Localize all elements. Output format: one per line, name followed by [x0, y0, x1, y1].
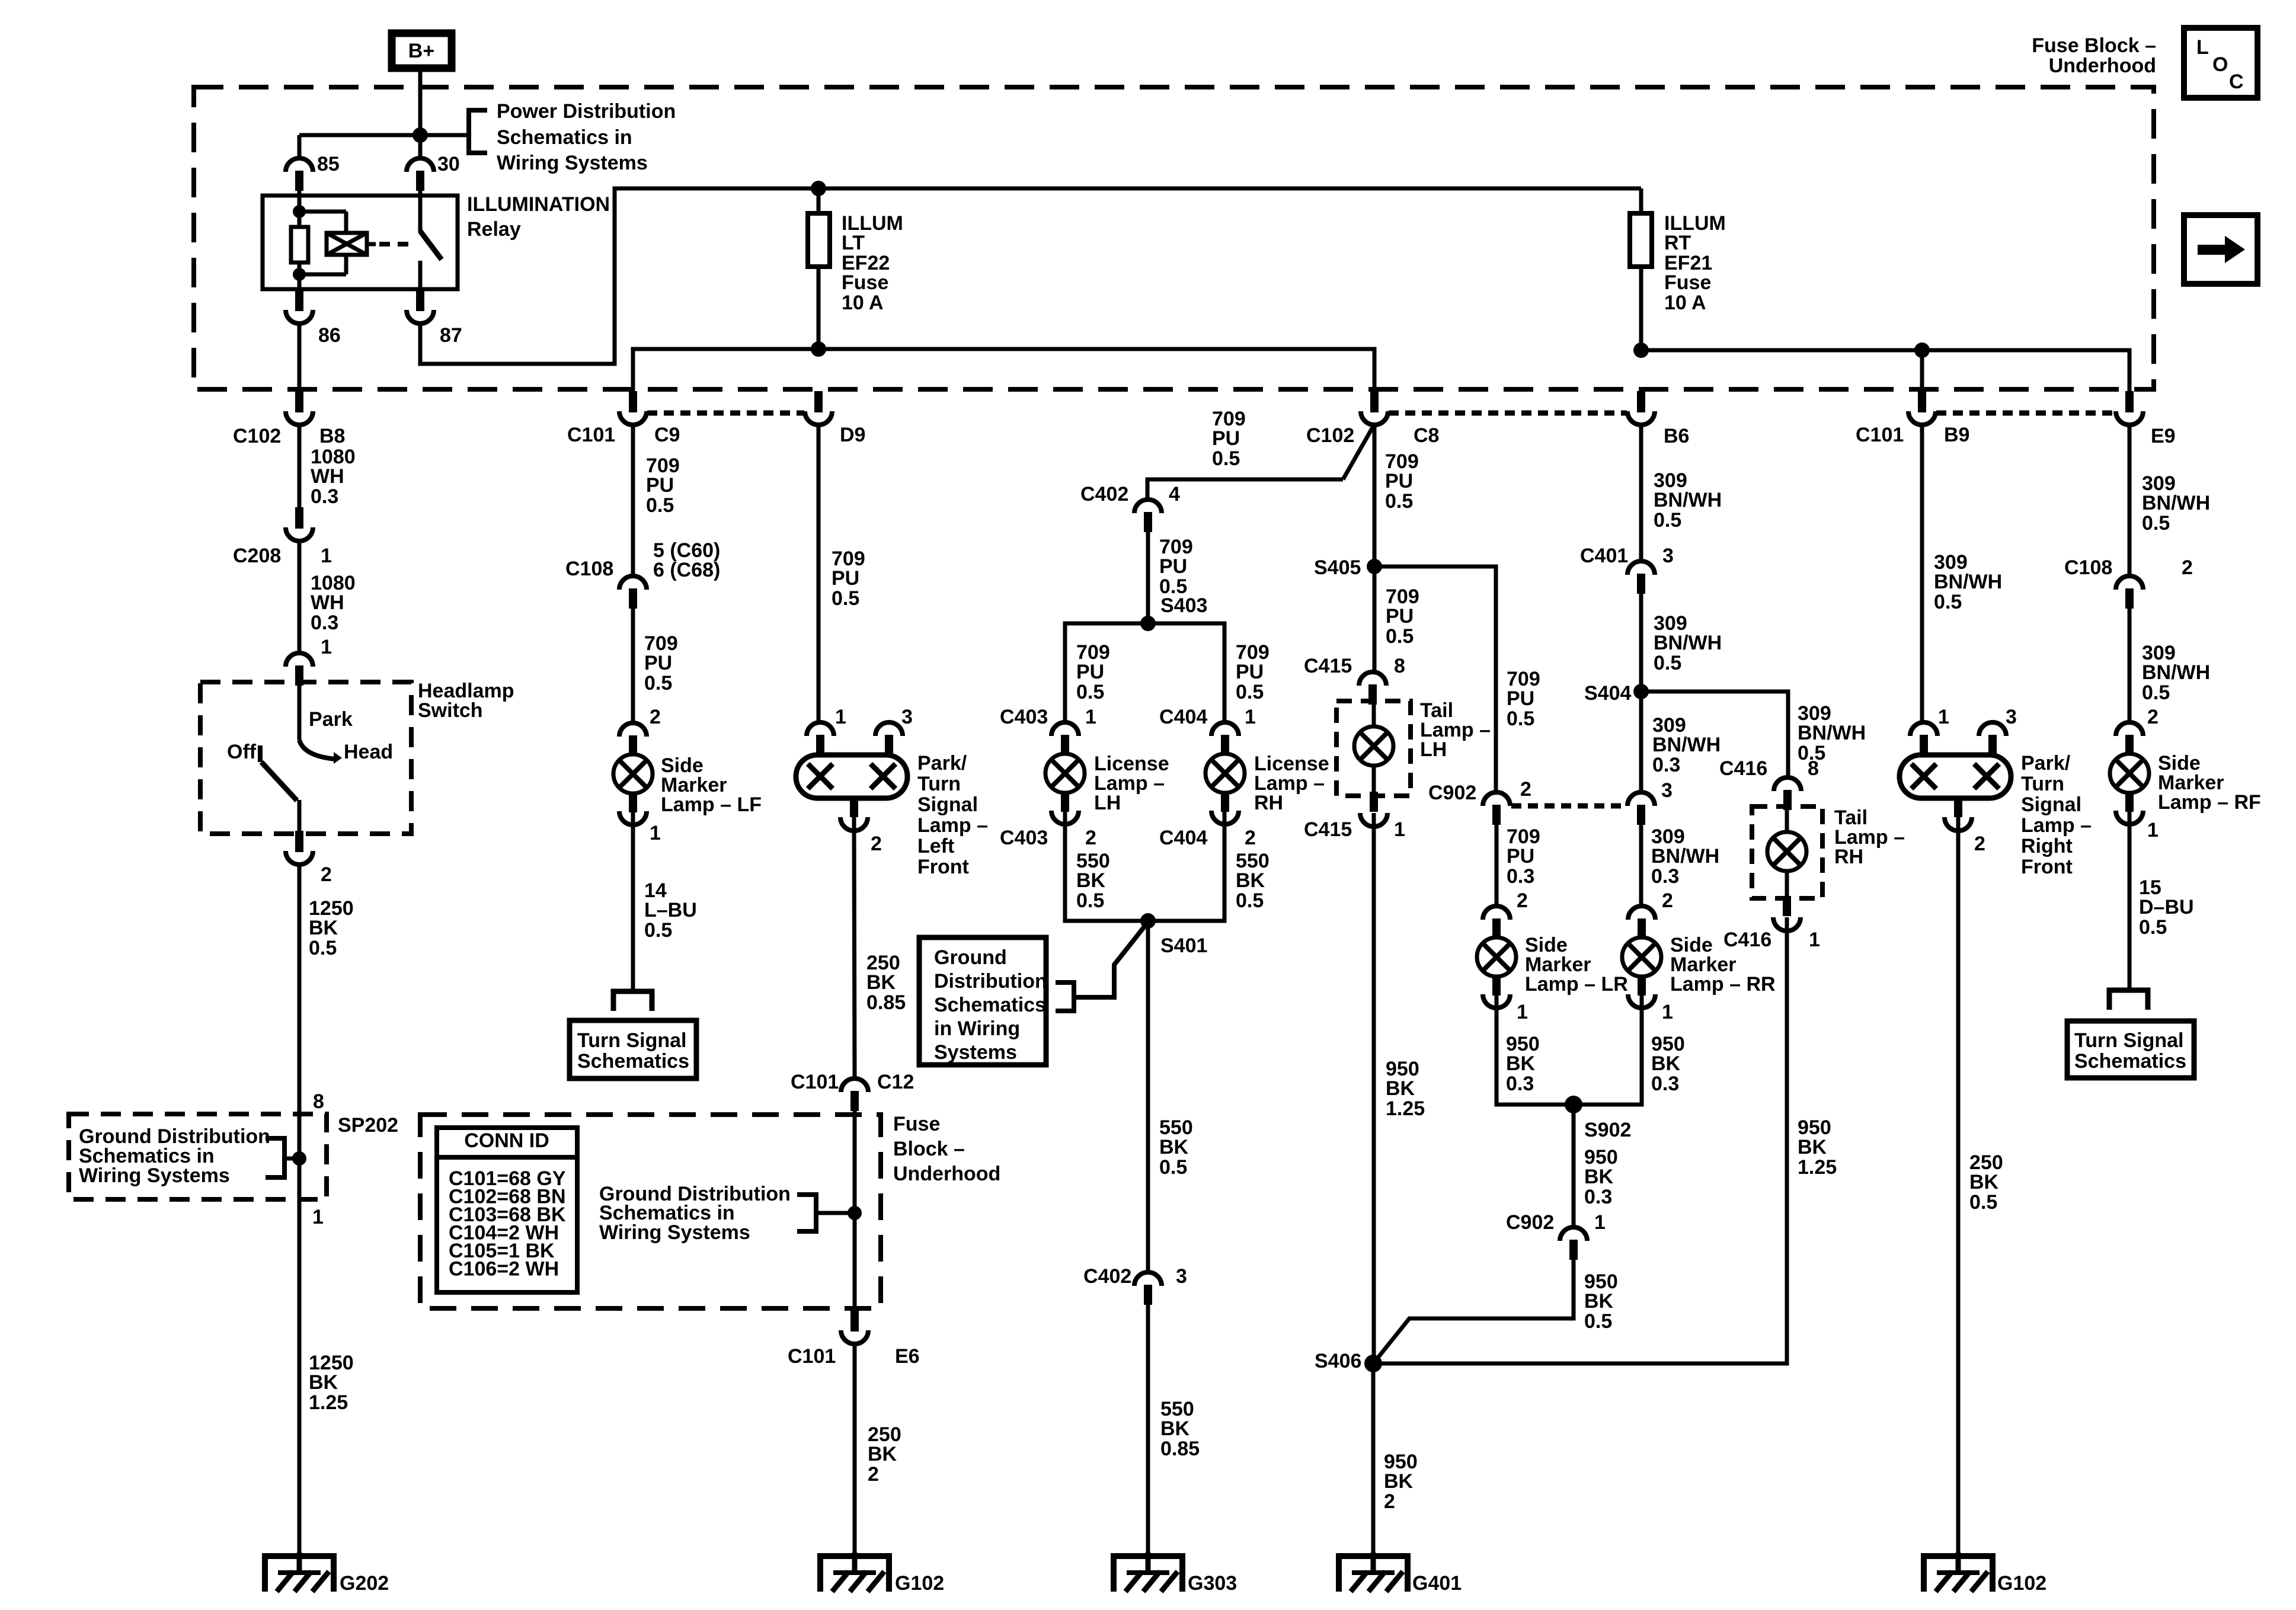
svg-text:2: 2 [1520, 778, 1531, 801]
wire C902-2 to side marker LR [1495, 825, 1499, 906]
arrow continuation box [2184, 215, 2257, 284]
label Tail Lamp - RH [1834, 806, 1905, 868]
wire C12 to E6 inside fuse block [853, 1111, 857, 1310]
svg-text:1.25: 1.25 [1386, 1097, 1425, 1120]
svg-text:1: 1 [1517, 1001, 1528, 1023]
svg-text:Off: Off [227, 741, 257, 763]
wire C108 to side marker LF [631, 609, 635, 723]
svg-text:C106=2 WH: C106=2 WH [449, 1258, 559, 1281]
connector C902 dashed pair link [1511, 804, 1625, 809]
svg-text:PU: PU [1507, 687, 1534, 710]
node S404 splice [1584, 682, 1649, 705]
node B+ junction [412, 127, 428, 143]
wire E9 circuit 309 BN/WH [2128, 425, 2132, 576]
connector C416 pin 1 label [1723, 929, 1820, 951]
svg-text:PU: PU [1212, 427, 1240, 450]
svg-text:0.5: 0.5 [646, 494, 674, 517]
svg-text:PU: PU [646, 474, 674, 497]
svg-text:D9: D9 [840, 424, 865, 446]
svg-text:BK: BK [1651, 1052, 1681, 1075]
svg-text:BN/WH: BN/WH [1654, 632, 1722, 654]
wire B9 circuit 309 BN/WH [1920, 425, 1924, 722]
svg-text:B8: B8 [319, 425, 345, 447]
node EF22 output junction [811, 341, 826, 357]
svg-text:C401: C401 [1580, 545, 1628, 567]
label Fuse Block - Underhood (top right) [2032, 34, 2156, 77]
wire C208 to headlamp switch [298, 541, 302, 654]
label License Lamp - LH [1094, 753, 1169, 814]
svg-text:0.3: 0.3 [311, 485, 338, 508]
wire C902-1 to S406 [1373, 1260, 1574, 1363]
svg-text:C8: C8 [1414, 424, 1439, 447]
headlamp switch pin 1 connector [286, 636, 332, 686]
svg-text:Underhood: Underhood [893, 1163, 1000, 1185]
svg-text:S405: S405 [1314, 556, 1361, 579]
relay pin 87 connector [407, 290, 462, 347]
wire side marker LF to turn signal schematics [631, 811, 635, 991]
fuse ILLUM LT EF22 10A [808, 188, 830, 349]
connector C416 pin 8 [1719, 757, 1819, 810]
wire C9 circuit 709 PU [631, 425, 635, 576]
label 309 BN/WH 0.3 below [1651, 825, 1719, 888]
svg-text:87: 87 [440, 324, 462, 347]
label 709 PU 0.5 branch [1212, 408, 1246, 470]
svg-text:C208: C208 [233, 545, 281, 567]
svg-text:Turn Signal: Turn Signal [577, 1029, 686, 1052]
fuse block underhood dashed box [194, 87, 2154, 389]
label Side Marker Lamp - RR [1670, 934, 1776, 996]
svg-text:1: 1 [650, 822, 661, 844]
wire park turn LF ground 250 BK [854, 817, 855, 1078]
svg-text:8: 8 [1808, 757, 1819, 780]
label 309 BN/WH 0.5 below C108 [2142, 642, 2210, 704]
wire license lamp top rail [1065, 623, 1224, 722]
label Side Marker Lamp - RF [2158, 752, 2261, 814]
svg-text:Schematics: Schematics [934, 994, 1046, 1016]
svg-text:1.25: 1.25 [309, 1391, 348, 1414]
svg-text:Switch: Switch [418, 699, 483, 722]
svg-text:1: 1 [1938, 706, 1949, 728]
svg-text:3: 3 [1661, 779, 1673, 802]
label 709 PU 0.5 second [644, 632, 678, 694]
svg-text:BK: BK [1584, 1166, 1614, 1188]
connector C108 pin 2 [2064, 556, 2193, 609]
svg-text:G102: G102 [1997, 1572, 2046, 1595]
label 950 BK 0.3 LR [1506, 1033, 1540, 1095]
svg-text:BK: BK [1798, 1136, 1827, 1158]
svg-text:2: 2 [2182, 556, 2193, 579]
svg-text:85: 85 [317, 153, 340, 175]
svg-text:RT: RT [1664, 232, 1691, 254]
svg-text:2: 2 [871, 833, 882, 855]
svg-text:BK: BK [1386, 1077, 1415, 1100]
label 550 BK 0.5 below S401 [1159, 1116, 1193, 1179]
label 250 BK 0.5 right [1969, 1151, 2003, 1214]
svg-text:Signal: Signal [917, 793, 978, 816]
wire S902 to C902 pin 1 [1572, 1105, 1576, 1227]
label 709 PU 0.5 C8 [1385, 450, 1419, 513]
relay actuator dashed link [379, 242, 415, 247]
svg-text:1: 1 [1394, 818, 1405, 841]
svg-text:0.5: 0.5 [2142, 512, 2170, 534]
wire LR to S902 [1496, 994, 1574, 1105]
svg-text:0.3: 0.3 [1652, 754, 1680, 776]
wire pin 85/30 stubs into relay [298, 187, 302, 197]
svg-text:C902: C902 [1506, 1211, 1554, 1234]
svg-text:1: 1 [321, 545, 332, 567]
svg-text:30: 30 [437, 153, 460, 175]
wire C8 branch to C402 [1147, 424, 1374, 500]
svg-text:0.5: 0.5 [1654, 652, 1681, 674]
svg-text:2: 2 [2147, 706, 2159, 728]
svg-text:Power Distribution: Power Distribution [497, 100, 676, 123]
wire junction to relay pins 85 and 30 [299, 133, 420, 137]
svg-text:B6: B6 [1664, 425, 1689, 447]
label 550 BK 0.5 RH [1236, 850, 1269, 912]
svg-text:0.3: 0.3 [311, 612, 338, 634]
svg-text:PU: PU [1236, 661, 1264, 683]
label 709 PU 0.3 [1507, 825, 1540, 888]
label Headlamp Switch [418, 680, 514, 722]
connector C404 pin 1 label [1159, 706, 1256, 728]
svg-text:C402: C402 [1080, 483, 1128, 505]
svg-text:BK: BK [866, 971, 896, 994]
connector C101 pin D9 [805, 391, 865, 446]
svg-text:Fuse: Fuse [1664, 271, 1711, 294]
headlamp switch pin 2 connector [286, 831, 332, 886]
lamp Park/Turn Signal Lamp - Right Front [1900, 706, 2017, 855]
label 950 BK 0.3 below S902 [1584, 1146, 1618, 1208]
label Tail Lamp - LH [1420, 699, 1491, 761]
ground G102 [820, 1553, 944, 1595]
svg-text:S404: S404 [1584, 682, 1631, 705]
svg-text:C416: C416 [1719, 757, 1767, 780]
svg-text:L: L [2196, 36, 2209, 59]
label Ground Distribution Schematics in Wiring Systems left [79, 1125, 270, 1187]
lamp Side Marker Lamp - LF [613, 723, 653, 825]
connector C415 pin 8 [1304, 655, 1405, 705]
svg-text:BK: BK [1584, 1290, 1614, 1313]
svg-text:WH: WH [311, 591, 344, 614]
svg-text:2: 2 [1517, 889, 1528, 912]
svg-text:Fuse Block –: Fuse Block – [2032, 34, 2156, 57]
svg-text:1: 1 [1594, 1211, 1606, 1234]
node S406 splice [1315, 1350, 1382, 1372]
svg-text:BK: BK [1160, 1417, 1190, 1440]
connector C902 pin 3 [1627, 779, 1673, 825]
fuse ILLUM RT EF21 10A [1630, 188, 1652, 350]
label Park/Turn Signal Lamp - Left Front [917, 752, 988, 878]
wire left distribution rail [633, 349, 1374, 392]
svg-text:Distribution: Distribution [934, 970, 1047, 993]
wire C401 to S404 [1639, 594, 1643, 692]
svg-text:PU: PU [832, 567, 859, 590]
turn signal schematics box right [2067, 1021, 2194, 1078]
connector C403 pin 1 label [1000, 706, 1096, 728]
svg-text:Front: Front [917, 856, 969, 878]
battery feed B+ terminal [392, 33, 452, 68]
svg-text:Park/: Park/ [2021, 752, 2071, 774]
svg-text:3: 3 [1662, 545, 1674, 567]
svg-text:0.5: 0.5 [1236, 681, 1264, 703]
svg-text:G202: G202 [340, 1572, 389, 1595]
node fuse rail junction at EF22 [811, 181, 826, 196]
svg-text:C12: C12 [877, 1071, 914, 1093]
wire pin 86 to connector B8 [298, 323, 302, 392]
svg-text:Lamp – LR: Lamp – LR [1525, 973, 1628, 996]
svg-text:B+: B+ [408, 40, 434, 62]
svg-text:BN/WH: BN/WH [1934, 571, 2002, 593]
svg-text:Turn: Turn [2021, 773, 2064, 795]
bracket to power distribution note [420, 110, 487, 153]
bracket into turn signal schematics right [2109, 990, 2148, 1010]
svg-text:G303: G303 [1188, 1572, 1237, 1595]
svg-text:BK: BK [1969, 1171, 1999, 1193]
ground distribution dashed box SP202 [69, 1114, 327, 1199]
lamp Park/Turn Signal Lamp - Left Front [796, 706, 913, 855]
label 709 PU 0.5 license LH [1076, 641, 1110, 703]
svg-text:Head: Head [344, 741, 393, 763]
svg-text:0.5: 0.5 [1507, 708, 1534, 730]
ground G102 right [1924, 1553, 2046, 1595]
wire S401 down to C402 pin 3 [1146, 921, 1150, 1272]
svg-text:Lamp – RR: Lamp – RR [1670, 973, 1776, 996]
svg-text:Wiring Systems: Wiring Systems [79, 1164, 230, 1187]
svg-text:Schematics in: Schematics in [497, 126, 632, 149]
headlamp switch dashed box [200, 682, 411, 834]
bracket S401 to ground distribution note [1056, 922, 1148, 1011]
svg-text:2: 2 [868, 1463, 879, 1486]
svg-text:BN/WH: BN/WH [1651, 845, 1719, 868]
svg-text:Wiring Systems: Wiring Systems [599, 1221, 750, 1244]
svg-text:Front: Front [2021, 856, 2073, 878]
connector C102 pin C8 [1306, 391, 1439, 447]
label 1250 BK 1.25 [309, 1352, 354, 1414]
svg-text:C404: C404 [1159, 827, 1207, 849]
svg-text:0.3: 0.3 [1507, 865, 1534, 888]
connector C101 pin E9 [2116, 391, 2176, 447]
svg-text:Park/: Park/ [917, 752, 967, 774]
svg-text:BN/WH: BN/WH [2142, 492, 2210, 514]
wire S404 branch to tail lamp RH [1641, 692, 1788, 777]
node splice on E6 wire [848, 1206, 862, 1220]
lamp Side Marker Lamp - RF [2110, 722, 2149, 824]
svg-text:Ground: Ground [934, 946, 1007, 969]
svg-text:C101: C101 [1856, 424, 1904, 446]
svg-text:C415: C415 [1304, 655, 1352, 677]
label 709 PU 0.5 D9 [832, 548, 865, 610]
svg-text:Turn: Turn [917, 773, 961, 795]
wire license lamp bottom rail [1065, 811, 1224, 921]
connector C402 pin 4 [1080, 483, 1180, 532]
svg-text:Systems: Systems [934, 1041, 1017, 1064]
svg-text:C101: C101 [791, 1071, 839, 1093]
label 1250 BK 0.5 [309, 897, 354, 959]
svg-text:2: 2 [650, 706, 661, 728]
svg-text:1: 1 [321, 636, 332, 658]
wire S405 down to tail lamp [1373, 566, 1377, 672]
svg-text:PU: PU [1385, 470, 1413, 492]
ground G401 [1339, 1553, 1462, 1595]
relay switch contacts [420, 196, 442, 289]
label 250 BK 2 [868, 1423, 901, 1486]
connector C101 pin B9 [1856, 391, 1969, 446]
svg-text:C415: C415 [1304, 818, 1352, 841]
wire switch output 1250 BK [298, 865, 302, 1556]
svg-text:2: 2 [1085, 827, 1096, 849]
svg-text:BK: BK [1236, 869, 1265, 892]
svg-text:C101: C101 [567, 424, 615, 446]
svg-text:Right: Right [2021, 835, 2073, 857]
svg-text:Wiring Systems: Wiring Systems [497, 152, 648, 174]
svg-text:E9: E9 [2151, 425, 2176, 447]
conn id table [437, 1128, 577, 1292]
connector C401 pin 3 [1580, 545, 1674, 594]
turn signal schematics box left [570, 1020, 696, 1078]
connector C902 pin 2 [1428, 778, 1531, 825]
svg-text:4: 4 [1169, 483, 1180, 505]
connector C101 pin C9 [567, 391, 680, 446]
svg-text:BN/WH: BN/WH [1652, 734, 1721, 756]
op relay ILLUMINATION Relay box [263, 196, 458, 289]
svg-text:C9: C9 [654, 424, 680, 446]
label Side Marker Lamp - LF [661, 754, 762, 816]
svg-text:6 (C68): 6 (C68) [653, 559, 720, 581]
connector C208 pin 1 [233, 507, 332, 567]
svg-text:0.5: 0.5 [1236, 889, 1264, 912]
svg-text:C102: C102 [1306, 424, 1354, 447]
label 950 BK 1.25 [1386, 1058, 1425, 1120]
svg-text:BK: BK [309, 1371, 338, 1394]
svg-text:0.3: 0.3 [1651, 865, 1679, 888]
svg-text:C404: C404 [1159, 706, 1207, 728]
svg-text:0.5: 0.5 [1159, 1156, 1187, 1179]
label Park/Turn Signal Lamp - Right Front [2021, 752, 2092, 878]
lamp License Lamp - LH [1045, 722, 1085, 824]
svg-text:8: 8 [1394, 655, 1405, 677]
label 709 PU 0.5 C9 [646, 454, 680, 517]
label 950 BK 0.5 [1584, 1270, 1618, 1333]
svg-text:C108: C108 [565, 558, 613, 580]
wire C108 to side marker RF [2128, 609, 2132, 722]
svg-text:0.5: 0.5 [2139, 916, 2167, 939]
svg-text:BK: BK [1506, 1052, 1536, 1075]
node S403 splice [1140, 594, 1207, 631]
svg-text:B9: B9 [1944, 424, 1969, 446]
svg-text:Schematics: Schematics [577, 1050, 689, 1073]
svg-text:S406: S406 [1315, 1350, 1361, 1372]
svg-text:BN/WH: BN/WH [1654, 489, 1722, 511]
connector C404 pin 2 label [1159, 827, 1256, 849]
svg-text:PU: PU [1076, 661, 1104, 683]
svg-text:L–BU: L–BU [644, 899, 697, 921]
svg-text:CONN ID: CONN ID [464, 1129, 549, 1152]
connector C101 pin C12 [791, 1071, 914, 1111]
lamp Tail Lamp - LH [1336, 701, 1411, 827]
svg-text:0.5: 0.5 [1212, 447, 1240, 470]
svg-text:PU: PU [1386, 605, 1414, 628]
label 709 PU 0.5 below C402 [1159, 536, 1193, 598]
svg-text:C416: C416 [1723, 929, 1771, 951]
svg-text:0.5: 0.5 [1076, 889, 1104, 912]
lamp Side Marker Lamp - RR [1622, 906, 1661, 1008]
svg-text:E6: E6 [895, 1345, 920, 1368]
svg-text:Relay: Relay [467, 218, 521, 241]
LOC reference box [2184, 28, 2257, 98]
svg-text:0.5: 0.5 [1654, 509, 1681, 532]
svg-text:0.5: 0.5 [644, 919, 672, 942]
label 309 BN/WH 0.5 branch [1798, 702, 1866, 764]
svg-text:0.3: 0.3 [1651, 1073, 1679, 1095]
bracket into turn signal schematics left [613, 991, 652, 1011]
label 709 PU 0.5 below S405 [1386, 585, 1419, 648]
bracket splice SP202 [266, 1138, 299, 1177]
svg-text:O: O [2212, 53, 2228, 76]
svg-text:0.5: 0.5 [1386, 625, 1414, 648]
wire S404 down to side marker RR [1639, 692, 1643, 792]
relay pin 30 connector [407, 135, 460, 191]
svg-text:Turn Signal: Turn Signal [2074, 1029, 2183, 1052]
svg-text:0.3: 0.3 [1584, 1186, 1612, 1208]
wire tail RH down to S406 rail [1373, 917, 1787, 1363]
label 950 BK 2 [1384, 1451, 1418, 1513]
connector C101 pin E6 [788, 1310, 920, 1368]
svg-text:BK: BK [1076, 869, 1106, 892]
svg-text:2: 2 [1662, 889, 1673, 912]
svg-text:Lamp – RF: Lamp – RF [2158, 791, 2261, 814]
svg-text:C102: C102 [233, 425, 281, 447]
label 950 BK 1.25 tail RH [1798, 1116, 1837, 1179]
wire D9 circuit 709 PU [817, 425, 821, 722]
label 1080 WH 0.3 [311, 446, 356, 508]
node S401 splice [1140, 913, 1207, 957]
svg-text:S902: S902 [1584, 1119, 1631, 1141]
svg-text:0.5: 0.5 [1076, 681, 1104, 703]
svg-text:BN/WH: BN/WH [2142, 661, 2210, 684]
svg-text:C403: C403 [1000, 706, 1048, 728]
svg-text:C403: C403 [1000, 827, 1048, 849]
svg-text:2: 2 [321, 863, 332, 886]
svg-text:1: 1 [312, 1206, 324, 1228]
svg-text:3: 3 [901, 706, 913, 728]
svg-text:0.5: 0.5 [1934, 591, 1962, 613]
wire tail lamp LH to S406 950 BK [1372, 813, 1376, 1363]
connector C102 pin B8 [233, 391, 345, 447]
svg-text:1.25: 1.25 [1798, 1156, 1837, 1179]
svg-text:0.5: 0.5 [309, 937, 337, 959]
wire C402 to S403 [1146, 532, 1150, 623]
wire C402-3 to ground G303 [1146, 1305, 1150, 1556]
lamp License Lamp - RH [1205, 722, 1245, 824]
label fuse EF21 [1664, 212, 1726, 314]
label Fuse Block - Underhood lower [893, 1113, 1000, 1185]
label 14 L-BU 0.5 [644, 879, 697, 942]
node EF21 output junction [1633, 343, 1649, 358]
svg-text:0.5: 0.5 [2142, 681, 2170, 704]
svg-text:S401: S401 [1160, 934, 1207, 957]
connector C902 pin 1 [1506, 1211, 1606, 1260]
svg-text:3: 3 [2006, 706, 2017, 728]
wire B8 circuit 1080 WH [298, 425, 302, 508]
svg-text:1: 1 [1085, 706, 1096, 728]
svg-text:BN/WH: BN/WH [1798, 722, 1866, 744]
svg-text:Lamp –: Lamp – [2021, 814, 2092, 837]
label 950 BK 0.3 RR [1651, 1033, 1685, 1095]
svg-text:86: 86 [318, 324, 341, 347]
label 709 PU 0.5 license RH [1236, 641, 1269, 703]
label 309 BN/WH 0.5 B6 [1654, 469, 1722, 532]
svg-text:LT: LT [842, 232, 865, 254]
